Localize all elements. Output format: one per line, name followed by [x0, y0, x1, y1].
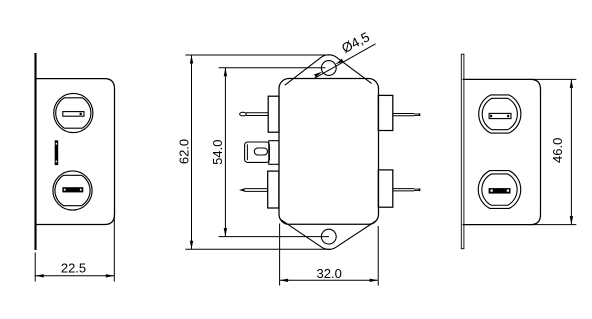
svg-text:46.0: 46.0 [550, 138, 565, 163]
svg-text:32.0: 32.0 [317, 266, 342, 281]
svg-text:62.0: 62.0 [176, 139, 191, 164]
svg-text:54.0: 54.0 [210, 140, 225, 165]
svg-text:22.5: 22.5 [61, 261, 86, 276]
